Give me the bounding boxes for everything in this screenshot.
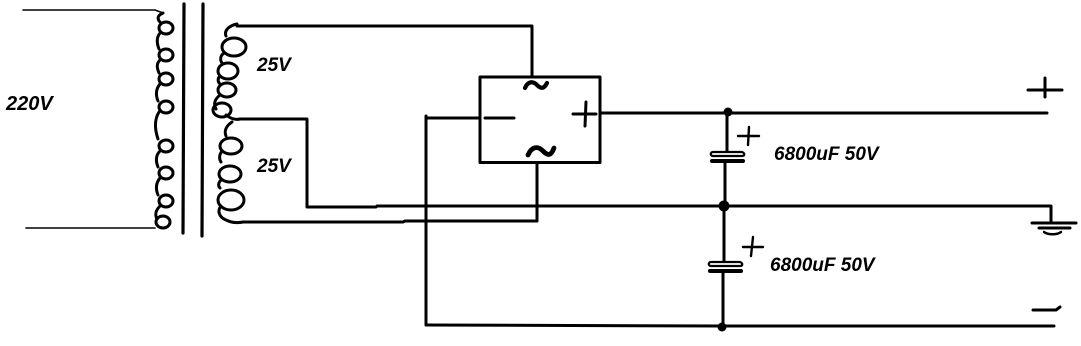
svg-text:6800uF 50V: 6800uF 50V — [774, 144, 880, 165]
wire center tap to 0V rail — [240, 119, 724, 207]
node junction dot 0V rail — [719, 201, 730, 212]
wire primary top lead — [23, 10, 163, 13]
node junction dot plus rail — [724, 108, 733, 117]
capacitor C2 — [709, 262, 743, 271]
wire primary bottom lead — [26, 227, 155, 229]
transformer core — [183, 4, 203, 236]
bridge rectifier U1 — [480, 77, 600, 163]
wire bridge minus terminal — [426, 117, 480, 120]
capacitor C2 lead bottom — [722, 273, 725, 326]
capacitor C1 lead top — [726, 113, 729, 151]
bridge AC symbol top — [525, 82, 547, 88]
capacitor C2 lead top — [723, 206, 726, 261]
wire secondary bottom to bridge AC2 — [243, 221, 537, 222]
wire minus output rail — [426, 325, 1054, 326]
transformer T1 primary winding — [156, 13, 174, 228]
wire secondary top to bridge AC1 — [237, 26, 532, 76]
wire 0V rail to ground — [724, 206, 1051, 222]
bridge minus sign — [485, 117, 514, 120]
svg-text:220V: 220V — [5, 93, 54, 115]
transformer T1 secondary winding bottom 25V — [218, 122, 244, 223]
wire bridge AC2 vertical — [536, 163, 539, 221]
wire bridge plus to plus rail — [600, 112, 1047, 115]
transformer T1 secondary winding top 25V — [213, 24, 246, 119]
terminal plus output symbol — [1028, 78, 1062, 97]
terminal minus output symbol — [1033, 307, 1060, 310]
svg-text:25V: 25V — [256, 55, 292, 76]
node junction dot minus rail — [718, 323, 727, 332]
svg-text:6800uF 50V: 6800uF 50V — [770, 255, 876, 276]
wire minus vertical drop — [425, 116, 428, 325]
ground — [1032, 223, 1076, 234]
bridge plus sign — [573, 102, 596, 126]
bridge AC symbol bottom — [528, 148, 554, 155]
capacitor C1 polarity plus — [738, 127, 759, 145]
svg-text:25V: 25V — [256, 156, 292, 177]
capacitor C1 — [711, 152, 745, 161]
capacitor C1 lead bottom — [724, 163, 727, 206]
capacitor C2 polarity plus — [743, 237, 763, 256]
